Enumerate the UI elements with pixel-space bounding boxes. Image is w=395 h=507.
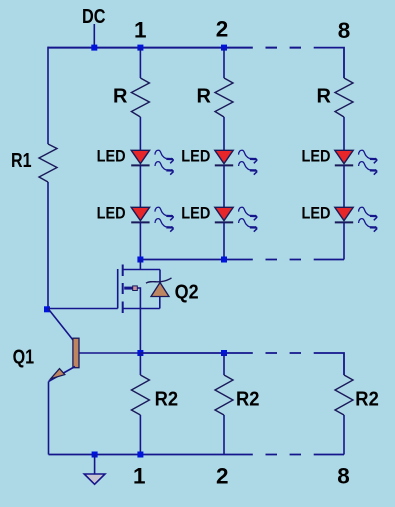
svg-text:1: 1 [134, 18, 147, 43]
light emission arrows column 2 row 1 [239, 150, 258, 174]
wire: top DC bus dashed segment [266, 47, 302, 49]
wire: left rail from bus down to R1 [47, 47, 49, 144]
wire: column 8 from corner to R [343, 77, 345, 79]
wire: ground stub [94, 455, 96, 474]
light emission arrows column 1 row 2 [155, 207, 174, 231]
svg-text:R: R [197, 85, 212, 107]
wire: LED return bus dashed segment [266, 259, 302, 261]
ground [84, 474, 105, 484]
resistor R column 8 [335, 78, 353, 117]
wire: column 8 R to LED1 [343, 117, 345, 150]
wire: column 1 LED1 to LED2 [139, 165, 141, 207]
wire: column 1 base rail to R2 [139, 353, 141, 375]
svg-text:LED: LED [302, 146, 331, 165]
resistor R1 [39, 144, 57, 182]
wire: bottom bus solid left segment [49, 454, 253, 456]
svg-text:R2: R2 [236, 388, 260, 410]
svg-text:2: 2 [216, 17, 229, 42]
wire: drain lead from LED bus junction down [139, 260, 141, 270]
junction base rail column 2 [221, 350, 227, 356]
wire: base rail solid segment to column 2 [140, 352, 252, 354]
light emission arrows column 1 row 1 [155, 150, 174, 174]
wire: gate lead from left rail junction [48, 308, 118, 310]
wire: column 2 from bus to R [223, 48, 225, 78]
wire: column 1 R2 to bottom bus [139, 415, 141, 455]
wire: drain rail to MOSFET and body diode branch [123, 269, 160, 271]
junction column 1 LED return bus [137, 257, 143, 263]
wire: column 2 LED2 to LED return bus [223, 222, 225, 259]
wire: body connection to source line [138, 288, 141, 309]
light emission arrows column 8 row 2 [359, 207, 378, 231]
junction base rail column 1 [137, 350, 143, 356]
junction ground node [92, 452, 98, 458]
LED D8-2 column 8 row 2 [335, 207, 353, 222]
transistor Q2 MOSFET channel segments [122, 265, 124, 314]
svg-text:LED: LED [97, 203, 126, 222]
wire: column 8 R2 to bottom bus corner [343, 415, 345, 455]
transistor Q2 body arrow shaft [124, 287, 133, 290]
svg-text:R: R [113, 85, 128, 107]
transistor Q1 emitter arrow [51, 369, 65, 379]
wire: DC stub [93, 24, 95, 48]
junction column 1 top [137, 45, 143, 51]
LED D2-1 column 2 row 1 [215, 150, 233, 165]
transistor Q2 body arrow head box [133, 286, 138, 291]
transistor Q1 collector lead [48, 309, 73, 341]
wire: base rail solid right segment with corner down to R2 column 8 [314, 353, 344, 375]
wire: column 2 LED1 to LED2 [223, 165, 225, 207]
resistor R2 column 2 [215, 375, 233, 415]
svg-text:LED: LED [302, 203, 331, 222]
svg-text:Q1: Q1 [13, 346, 34, 368]
svg-text:1: 1 [133, 464, 146, 489]
wire: left rail from R1 down to gate node [47, 182, 49, 309]
wire: MOSFET source down to base rail [139, 309, 141, 354]
wire: column 2 R to LED1 [223, 117, 225, 150]
transistor Q2 MOSFET gate plate [117, 269, 119, 309]
wire: column 1 LED2 to LED return bus [139, 222, 141, 259]
wire: bottom bus solid right segment [314, 454, 344, 456]
wire: base rail dashed segment [266, 352, 302, 354]
light emission arrows column 8 row 1 [359, 150, 378, 174]
wire: top DC bus solid left segment [48, 47, 253, 49]
wire: column 2 R2 to bottom bus [223, 415, 225, 455]
LED D2-2 column 2 row 2 [215, 207, 233, 222]
LED D1-1 column 1 row 1 [131, 150, 149, 165]
wire: left rail emitter corner down to bottom bus [48, 382, 50, 455]
svg-text:8: 8 [337, 464, 350, 489]
resistor R2 column 8 [335, 375, 353, 415]
wire: column 8 LED2 down to LED return bus corner [343, 222, 345, 259]
transistor Q1 emitter lead [49, 367, 76, 382]
diode Q2 body diode triangle [151, 283, 169, 297]
resistor R2 column 1 [131, 375, 149, 415]
resistor R column 2 [215, 78, 233, 117]
junction column 2 LED return bus [221, 257, 227, 263]
wire: column 1 from bus to R [139, 48, 141, 78]
svg-text:R: R [317, 85, 332, 107]
svg-text:R2: R2 [155, 388, 179, 410]
wire: top DC bus solid right segment with corner to column 8 [314, 48, 344, 78]
svg-text:LED: LED [97, 146, 126, 165]
diode Q2 cathode curved bar [146, 278, 172, 283]
wire: Q1 base lead to base rail [79, 352, 140, 354]
junction column 2 top [221, 45, 227, 51]
wire: diode anode down to source rail [159, 297, 161, 309]
svg-text:Q2: Q2 [175, 281, 199, 303]
resistor R column 1 [131, 78, 149, 117]
junction gate node on left rail [44, 306, 50, 312]
svg-text:2: 2 [216, 464, 229, 489]
svg-text:LED: LED [181, 203, 210, 222]
wire: LED return bus solid left segment [140, 259, 252, 261]
wire: source stub and diode bottom rail [123, 308, 160, 310]
wire: column 1 R to LED1 [139, 117, 141, 150]
wire: column 8 LED1 to LED2 [343, 165, 345, 207]
LED D8-1 column 8 row 1 [335, 150, 353, 165]
svg-text:LED: LED [181, 146, 210, 165]
LED D1-2 column 1 row 2 [131, 207, 149, 222]
svg-text:R1: R1 [11, 150, 32, 172]
wire: bottom bus dashed segment [266, 454, 302, 456]
svg-text:8: 8 [338, 18, 351, 43]
junction DC on top bus [91, 45, 97, 51]
wire: body diode branch from drain rail [159, 270, 161, 283]
transistor Q1 base bar [73, 338, 79, 368]
wire: LED return bus solid right segment [314, 259, 344, 261]
junction bottom bus column 1 [137, 452, 143, 458]
svg-text:R2: R2 [355, 388, 379, 410]
light emission arrows column 2 row 2 [239, 207, 258, 231]
wire: column 2 base rail to R2 [223, 353, 225, 375]
